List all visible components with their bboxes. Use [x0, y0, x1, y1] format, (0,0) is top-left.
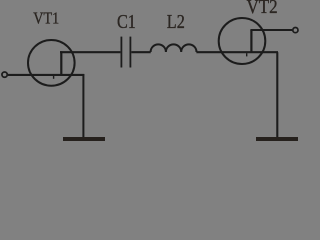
- wire: L2 to VT2 gate and on to source corner: [196, 51, 278, 53]
- svg-text:VT2: VT2: [247, 0, 278, 18]
- C1 right plate: [129, 37, 131, 68]
- svg-text:C1: C1: [117, 10, 136, 32]
- ground bar under VT2: [256, 137, 298, 141]
- wire: VT1 source drop to ground: [82, 74, 84, 138]
- capacitor C1: [121, 37, 130, 68]
- inductor L2: [151, 44, 197, 52]
- wire: input to VT1 gate and on to source corner: [8, 74, 84, 76]
- wire: VT2 source drop to ground: [276, 52, 278, 137]
- C1 left plate: [120, 37, 122, 68]
- VT1 channel bar: [60, 51, 62, 74]
- VT1 gate tick: [53, 76, 55, 79]
- transistor VT1: [28, 40, 75, 86]
- svg-text:VT1: VT1: [33, 9, 59, 27]
- VT1 circle: [28, 40, 75, 86]
- wire: C1 to L2: [131, 51, 150, 53]
- VT2 channel bar: [250, 30, 252, 52]
- output terminal: [293, 28, 298, 33]
- VT2 circle: [219, 18, 266, 64]
- wire: VT1 drain to C1: [60, 51, 120, 53]
- svg-text:L2: L2: [167, 10, 185, 32]
- input terminal: [2, 72, 7, 77]
- wire: VT2 drain to output: [250, 29, 292, 31]
- ground bar under VT1: [63, 137, 105, 141]
- VT2 gate tick: [246, 53, 248, 56]
- transistor VT2: [219, 18, 266, 64]
